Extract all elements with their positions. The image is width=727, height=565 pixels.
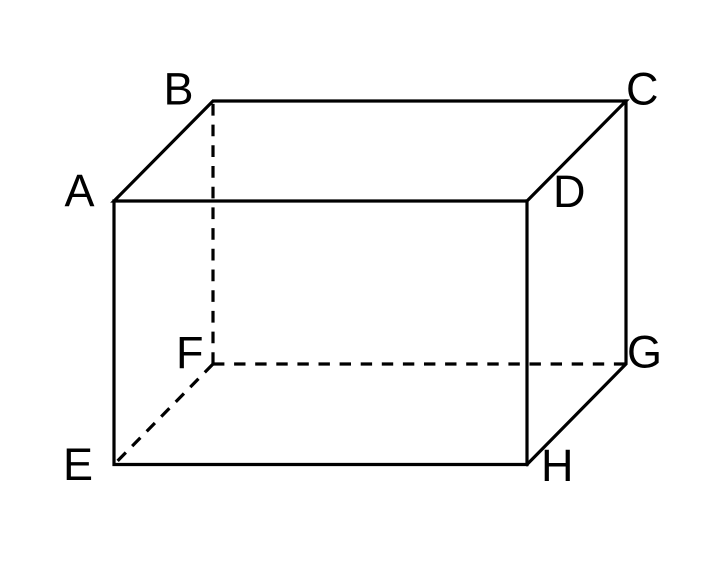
svg-text:A: A: [65, 165, 95, 216]
svg-text:E: E: [63, 439, 93, 490]
svg-text:F: F: [176, 327, 204, 378]
svg-text:C: C: [626, 64, 659, 115]
svg-text:B: B: [164, 64, 194, 115]
svg-text:D: D: [553, 166, 586, 217]
svg-text:G: G: [627, 327, 662, 378]
svg-text:H: H: [541, 440, 574, 491]
